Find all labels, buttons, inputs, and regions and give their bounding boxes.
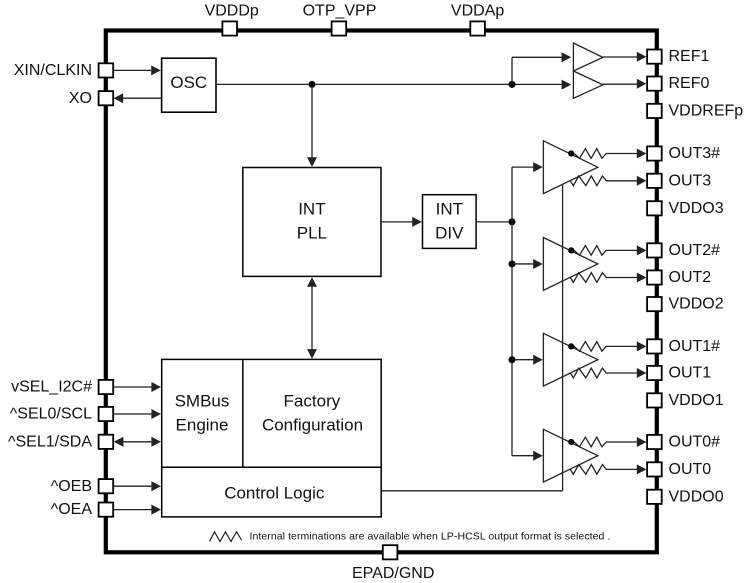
pin XIN/CLKIN [14,62,113,79]
buffer OUT2 output driver [543,238,597,291]
svg-text:^OEB: ^OEB [51,478,92,495]
svg-text:XIN/CLKIN: XIN/CLKIN [14,62,92,79]
block OSC oscillator [162,58,216,112]
wire resistor to OUT1# pin [606,341,646,351]
svg-text:Configuration: Configuration [262,416,363,435]
svg-text:OUT2: OUT2 [669,269,712,286]
pin OUT1# [647,338,720,355]
node OUT3# tap dot [568,150,574,156]
wire bus to OUT3 buffer [512,162,543,172]
wire OSC to XO [114,93,162,103]
svg-text:XO: XO [69,90,92,107]
pin OTP_VPP [303,3,377,36]
pin VDDO1 [647,392,724,409]
wire resistor to OUT3 pin [606,176,646,186]
wire SEL1/SDA bidirectional to SMBus Engine [114,437,161,447]
wire resistor to OUT2# pin [606,245,646,255]
svg-text:VDDO2: VDDO2 [669,296,724,313]
resistor termination OUT0 [570,465,606,475]
wire SEL0/SCL to SMBus Engine [113,409,161,419]
block INT PLL [243,168,381,277]
svg-text:VDDO1: VDDO1 [669,392,724,409]
resistor termination OUT0# [574,437,606,447]
pin XO [69,90,113,107]
block SMBus Engine / Factory Configuration / Control Logic [162,359,382,517]
wire clock to INT PLL input [307,84,317,166]
svg-text:Engine: Engine [176,416,229,435]
svg-text:OUT3#: OUT3# [669,145,721,162]
node OUT1 tap junction [509,356,516,363]
pin OUT2 [647,269,711,286]
resistor legend zigzag icon [210,532,242,542]
wire INT DIV output to distribution bus [476,221,512,223]
pin VDDDp [205,3,259,36]
buffer OUT0 output driver [543,429,597,482]
svg-text:VDDREFp: VDDREFp [669,103,744,120]
buffer REF1 [573,43,603,71]
svg-text:OTP_VPP: OTP_VPP [303,3,377,20]
wire resistor to OUT0# pin [606,437,646,447]
chip boundary border [106,31,657,553]
node OSC-to-PLL branch junction [309,81,316,88]
svg-text:OUT1#: OUT1# [669,338,721,355]
svg-text:INT: INT [298,199,325,218]
svg-text:PLL: PLL [297,223,327,242]
pin VDDO3 [647,200,724,217]
svg-text:vSEL_I2C#: vSEL_I2C# [11,379,92,396]
svg-text:Internal terminations are avai: Internal terminations are available when… [250,530,611,542]
svg-text:SMBus: SMBus [175,392,230,411]
resistor termination OUT3# [574,149,606,159]
pin ^SEL1/SDA [8,433,113,450]
pin ^SEL0/SCL [10,406,113,423]
node OUT1# tap dot [568,343,574,349]
svg-text:OSC: OSC [170,73,207,92]
pin OUT3 [647,172,711,189]
svg-text:OUT1: OUT1 [669,365,712,382]
pin VDDREFp [647,103,743,120]
resistor termination OUT1 [570,368,606,378]
svg-text:^SEL1/SDA: ^SEL1/SDA [8,433,92,450]
buffer OUT1 output driver [543,333,597,386]
resistor termination OUT2 [570,273,606,283]
wire resistor to OUT3# pin [606,149,646,159]
node OUT2 tap junction [509,260,516,267]
buffer OUT3 output driver [543,141,597,194]
pin REF0 [647,75,709,92]
wire REF1 buffer to REF1 pin [603,52,647,62]
pin VDDO0 [647,488,724,505]
pin OUT1 [647,365,711,382]
note internal terminations [250,530,611,542]
svg-text:VDDAp: VDDAp [451,3,504,20]
svg-text:REF0: REF0 [669,75,710,92]
wire INT PLL to INT DIV [381,217,422,227]
wire distribution bus vertical [511,167,513,456]
wire vSEL_I2C# to SMBus Engine [113,382,161,392]
wire bus to OUT1 buffer [512,355,543,365]
svg-text:EPAD/GND: EPAD/GND [352,565,434,582]
pin VDDO2 [647,296,724,313]
pin vSEL_I2C# [11,379,113,396]
svg-text:^OEA: ^OEA [51,501,93,518]
svg-text:DIV: DIV [435,223,464,242]
wire OEA to Control Logic [113,505,161,515]
svg-text:Factory: Factory [284,392,341,411]
resistor termination OUT3 [570,176,606,186]
block INT DIV [423,195,477,249]
pin VDDAp [451,3,504,36]
wire OEB to Control Logic [113,481,161,491]
wire bus to OUT0 buffer [512,451,543,461]
svg-text:OUT0#: OUT0# [669,434,721,451]
svg-text:VDDO3: VDDO3 [669,200,724,217]
wire bus to OUT2 buffer [512,259,543,269]
svg-text:INT: INT [436,199,463,218]
svg-text:VDDO0: VDDO0 [669,488,724,505]
pin EPAD/GND [352,545,434,582]
resistor termination OUT1# [574,342,606,352]
pin ^OEB [51,478,113,495]
wire resistor to OUT1 pin [606,368,646,378]
buffer REF0 [573,71,603,98]
svg-text:OUT3: OUT3 [669,172,712,189]
svg-text:Control Logic: Control Logic [224,484,325,503]
pin OUT0# [647,434,720,451]
pin OUT0 [647,461,711,478]
svg-text:^SEL0/SCL: ^SEL0/SCL [10,406,92,423]
svg-text:REF1: REF1 [669,48,710,65]
node REF branch junction [509,81,516,88]
pin OUT3# [647,145,720,162]
wire XIN to OSC [113,65,161,75]
wire resistor to OUT2 pin [606,273,646,283]
wire REF0 buffer to REF0 pin [603,79,647,89]
svg-text:VDDDp: VDDDp [205,3,259,20]
node OUT2# tap dot [568,247,574,253]
node DIV output junction [509,218,516,225]
svg-text:OUT2#: OUT2# [669,242,721,259]
svg-text:OUT0: OUT0 [669,461,712,478]
pin ^OEA [51,501,113,518]
wire resistor to OUT0 pin [606,464,646,474]
node OUT0# tap dot [568,439,574,445]
wire INT PLL to Factory Configuration (bidirectional) [307,277,317,359]
resistor termination OUT2# [574,246,606,256]
wire OSC output to REF0 buffer [216,80,571,90]
wire Control Logic enable to output buffers [381,184,562,490]
wire to REF1 buffer [512,52,571,84]
pin REF1 [647,48,709,65]
pin OUT2# [647,242,720,259]
